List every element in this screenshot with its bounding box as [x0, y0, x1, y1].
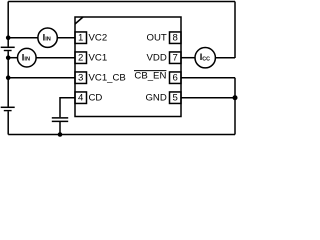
pin 7 box — [170, 52, 182, 64]
svg-text:VC1: VC1 — [89, 52, 108, 63]
wire pin 2 VC1 right segment — [36, 57, 75, 59]
svg-text:CB_EN: CB_EN — [134, 70, 166, 81]
node junction dot capacitor/ground rail — [58, 132, 63, 137]
wire left rail lower segment — [7, 111, 9, 134]
node junction dot pin2 — [6, 55, 11, 60]
battery B2 short plate — [4, 110, 12, 112]
pin 4 box — [75, 92, 87, 104]
wire capacitor to bottom rail — [59, 122, 61, 135]
svg-text:IN: IN — [45, 37, 51, 43]
pin 6 box — [170, 72, 182, 84]
op-amp U1 body outline — [75, 17, 181, 117]
svg-text:1: 1 — [78, 32, 83, 43]
battery B1 short plate — [4, 50, 12, 52]
wire left rail middle segment — [7, 51, 9, 107]
pin 1 box — [75, 32, 87, 44]
wire top rail — [8, 1, 235, 3]
wire pin 1 VC2 right segment — [57, 37, 75, 39]
wire ICC right to rail — [215, 57, 235, 59]
wire pin 2 VC1 left segment — [8, 57, 17, 59]
capacitor CD top plate — [52, 117, 68, 119]
svg-text:7: 7 — [173, 52, 178, 63]
svg-text:VC1_CB: VC1_CB — [89, 72, 126, 83]
svg-text:2: 2 — [78, 52, 83, 63]
battery B1 long plate — [1, 46, 15, 48]
wire right rail top (VDD supply) — [234, 2, 236, 59]
svg-text:OUT: OUT — [147, 32, 167, 43]
svg-text:3: 3 — [78, 72, 83, 83]
wire right vertical lower (CB_EN/GND to ground rail) — [234, 78, 236, 135]
pin 8 box — [170, 32, 182, 44]
pin 5 box — [170, 92, 182, 104]
node junction dot pin3 — [6, 75, 11, 80]
wire pin 1 VC2 left segment — [8, 37, 38, 39]
current source IIN1 circle — [38, 28, 57, 47]
wire pin 3 VC1_CB — [8, 77, 75, 79]
svg-text:6: 6 — [173, 72, 178, 83]
wire left rail upper segment — [7, 2, 9, 47]
wire pin 4 CD to capacitor — [60, 98, 75, 118]
current source IIN2 circle — [18, 48, 37, 67]
pin 2 box — [75, 52, 87, 64]
svg-text:GND: GND — [145, 92, 166, 103]
capacitor CD bottom plate — [52, 120, 68, 122]
wire pin 6 CB_EN to right vertical — [181, 77, 235, 79]
svg-text:VDD: VDD — [147, 52, 167, 63]
node junction dot GND/right vertical — [233, 95, 238, 100]
wire ICC left to pin 7 VDD — [181, 57, 195, 59]
U1 chamfer mark — [75, 17, 83, 24]
svg-text:IN: IN — [24, 57, 30, 63]
CB_EN overline — [134, 70, 166, 72]
wire pin 5 GND to right vertical — [181, 97, 235, 99]
svg-text:VC2: VC2 — [89, 32, 108, 43]
current source ICC circle — [195, 48, 215, 68]
svg-text:CD: CD — [89, 92, 103, 103]
svg-text:5: 5 — [173, 92, 178, 103]
svg-text:CC: CC — [202, 57, 210, 63]
pin 3 box — [75, 72, 87, 84]
svg-text:4: 4 — [78, 92, 84, 103]
battery B2 long plate — [1, 106, 15, 108]
node junction dot pin1/battery — [6, 35, 11, 40]
wire bottom rail — [8, 134, 235, 136]
svg-text:8: 8 — [173, 32, 178, 43]
